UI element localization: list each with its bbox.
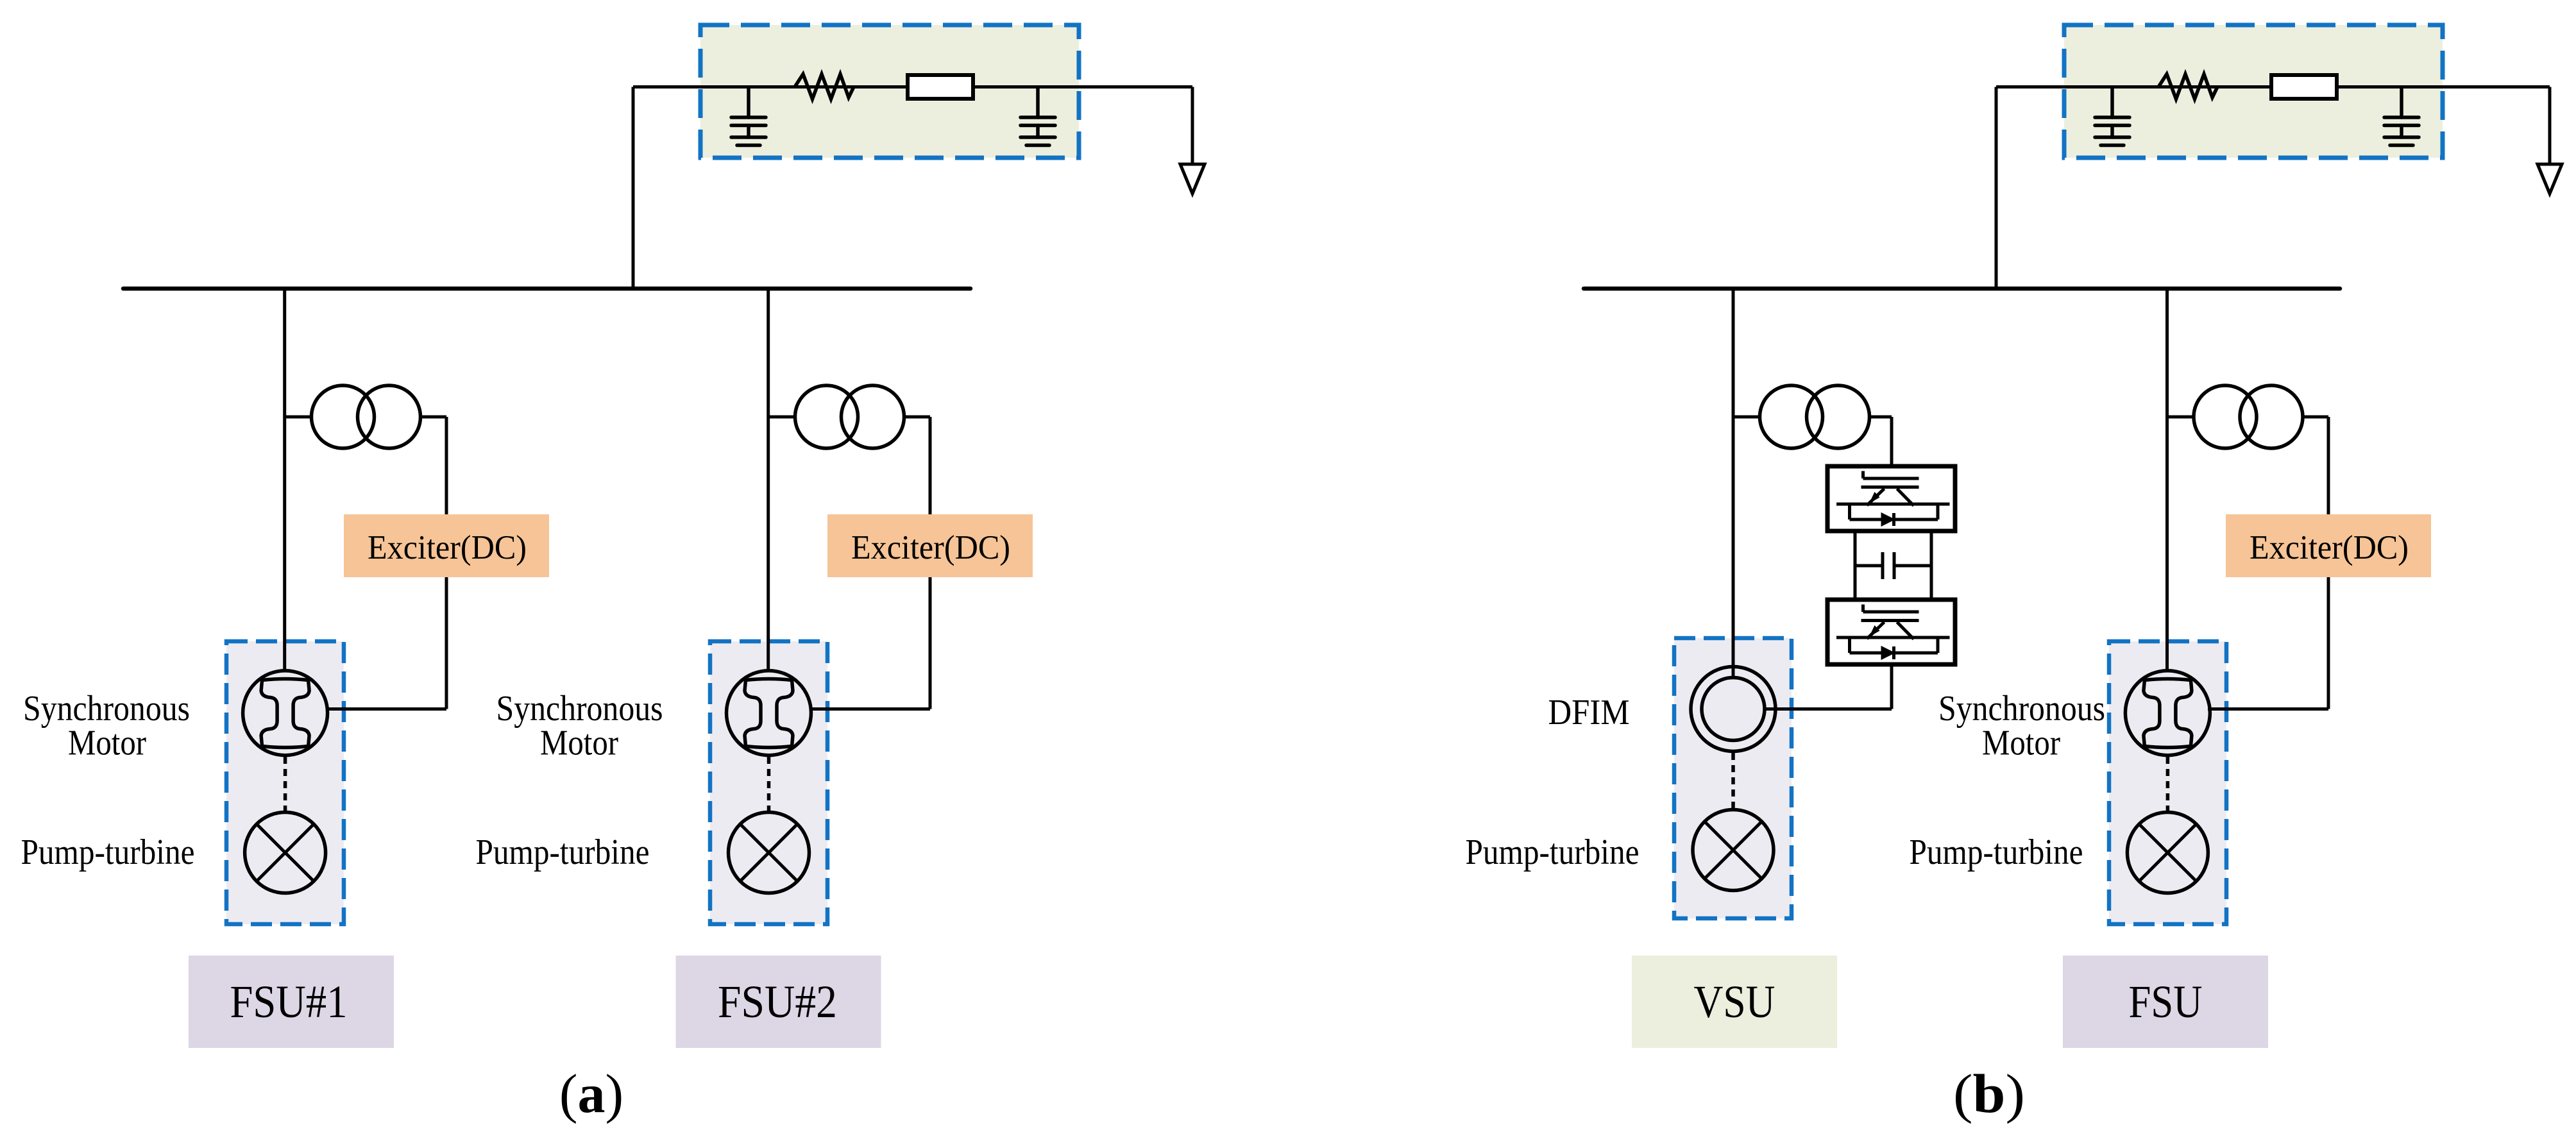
wire exciter branch upper (unit2) [929, 417, 932, 517]
transmission line pi-model box (b) [2064, 25, 2443, 158]
svg-text:FSU#1: FSU#1 [230, 976, 348, 1027]
wire bus down to motor 1 [283, 288, 286, 671]
line reactance box X (a) [908, 75, 973, 99]
wire bus to pi-line riser (a) [632, 87, 635, 289]
transformer T2 [795, 385, 858, 448]
svg-text:Pump-turbine: Pump-turbine [476, 832, 650, 872]
bus (a) [123, 287, 970, 291]
wire bus to pi-line riser (b) [1995, 87, 1998, 289]
grid arrow (a) [1180, 164, 1205, 194]
DC link rail right [1930, 531, 1933, 600]
wire pi-line horizontal (b) [1996, 85, 2550, 89]
wire to motor 1 stator [326, 707, 446, 711]
pump-turbine PT3 [1693, 810, 1774, 891]
wire exciter branch lower (unit1) [445, 575, 448, 709]
svg-text:Motor: Motor [68, 723, 146, 763]
line resistor R (b) [2158, 74, 2217, 99]
transformer T1 [312, 385, 375, 448]
synchronous motor SM2 [727, 671, 811, 755]
unit FSU#1 dashed box [226, 641, 344, 924]
wire jog to transformer T3 left [1733, 416, 1760, 419]
converter module U1 (grid side) [1827, 466, 1955, 531]
label FSU#2 [676, 956, 881, 1048]
wire transformer T3 right jog [1870, 416, 1892, 419]
svg-text:Exciter(DC): Exciter(DC) [851, 529, 1010, 566]
pump-turbine PT1 [245, 813, 326, 893]
svg-text:Pump-turbine: Pump-turbine [21, 832, 195, 872]
exciter box (unit1) [344, 514, 549, 577]
wire drop to grid arrow (a) [1191, 87, 1194, 165]
svg-text:FSU: FSU [2129, 976, 2203, 1027]
converter module U2 (rotor side) [1827, 600, 1955, 664]
wire exciter branch lower (unit2) [929, 575, 932, 709]
wire exciter branch lower (b) [2327, 575, 2330, 709]
svg-text:FSU#2: FSU#2 [718, 976, 837, 1027]
shaft unit2 [767, 757, 771, 811]
DC link rail left [1854, 531, 1857, 600]
exciter box (unit2) [827, 514, 1033, 577]
transformer T3 [1760, 385, 1823, 448]
svg-text:Pump-turbine: Pump-turbine [1910, 832, 2083, 872]
wire to motor 2 stator [809, 707, 930, 711]
wire exciter branch upper (b) [2327, 417, 2330, 517]
shaft VSU [1731, 753, 1735, 808]
svg-text:(a): (a) [559, 1063, 623, 1124]
wire bus down to DFIM [1732, 288, 1735, 679]
wire transformer T1 right jog [421, 416, 447, 419]
wire jog to transformer T4 left [2167, 416, 2194, 419]
transmission line pi-model box (a) [700, 25, 1079, 158]
svg-text:(b): (b) [1953, 1063, 2025, 1124]
svg-text:DFIM: DFIM [1548, 693, 1630, 732]
wire transformer T2 right jog [904, 416, 931, 419]
shunt capacitor C4 (b right) [2384, 87, 2419, 146]
unit FSU dashed box (b) [2109, 641, 2226, 924]
pump-turbine PT4 [2127, 813, 2208, 893]
unit FSU#2 dashed box [710, 641, 827, 924]
synchronous motor SM1 [243, 671, 328, 755]
exciter box (b) [2226, 514, 2431, 577]
shunt capacitor C1 (a left) [731, 87, 766, 146]
unit VSU dashed box [1674, 638, 1792, 918]
label VSU [1632, 956, 1837, 1048]
pump-turbine PT2 [729, 813, 809, 893]
shunt capacitor C2 (a right) [1021, 87, 1055, 146]
wire jog to transformer T2 left [768, 416, 796, 419]
transformer T4 [2194, 385, 2257, 448]
wire into converter top [1890, 417, 1894, 466]
synchronous motor SM3 [2125, 671, 2210, 755]
DC link capacitor [1855, 552, 1931, 579]
wire to motor 3 stator [2208, 707, 2328, 711]
wire converter to DFIM rotor [1890, 664, 1894, 709]
svg-text:Pump-turbine: Pump-turbine [1466, 832, 1640, 872]
svg-text:VSU: VSU [1694, 976, 1775, 1027]
wire drop to grid arrow (b) [2548, 87, 2552, 165]
bus (b) [1584, 287, 2340, 291]
shaft unit3 [2166, 757, 2170, 811]
svg-text:Motor: Motor [540, 723, 618, 763]
wire bus down to motor 2 [767, 288, 770, 671]
wire jog to transformer T1 left [285, 416, 312, 419]
shaft unit1 [284, 757, 287, 811]
label FSU (b) [2063, 956, 2268, 1048]
shunt capacitor C3 (b left) [2095, 87, 2130, 146]
svg-text:Exciter(DC): Exciter(DC) [368, 529, 527, 566]
wire exciter branch upper (unit1) [445, 417, 448, 517]
line reactance box X (b) [2271, 75, 2337, 99]
label FSU#1 [189, 956, 394, 1048]
wire bus down to motor 3 [2165, 288, 2169, 671]
svg-text:Exciter(DC): Exciter(DC) [2250, 529, 2409, 566]
wire pi-line horizontal (a) [633, 85, 1192, 89]
wire transformer T4 right jog [2303, 416, 2328, 419]
line resistor R (a) [795, 74, 854, 99]
svg-text:Motor: Motor [1982, 723, 2060, 763]
grid arrow (b) [2538, 164, 2562, 194]
DFIM machine [1691, 667, 1775, 752]
